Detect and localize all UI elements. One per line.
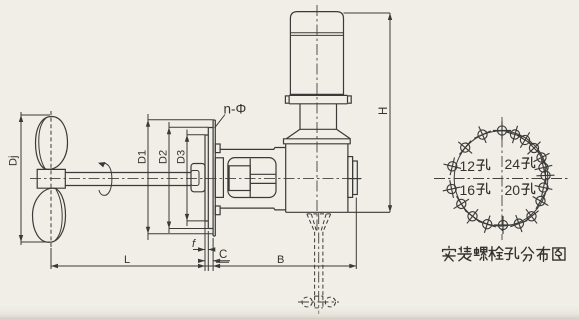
dashed lower propeller — [298, 296, 339, 308]
output cover on right face — [348, 157, 353, 198]
svg-text:D2: D2 — [158, 150, 170, 164]
label n-phi with leader — [215, 102, 247, 129]
motor body — [290, 12, 343, 95]
motor flange right bolt — [348, 96, 352, 103]
dashed lower shaft — [315, 232, 323, 296]
dimension D3 — [176, 130, 206, 227]
gearbox bottom edge + H extension — [286, 211, 390, 213]
mounting flange plates — [205, 128, 208, 229]
svg-text:B: B — [277, 254, 284, 266]
dimension D1 — [137, 114, 214, 240]
dimension Dj — [8, 112, 51, 245]
svg-text:C: C — [219, 249, 227, 261]
bell skirt — [286, 129, 350, 139]
dimension C — [198, 238, 230, 271]
propeller top blade — [36, 117, 68, 170]
bolt circle — [454, 131, 548, 226]
label 24 holes — [505, 156, 535, 172]
bolt holes — [443, 121, 555, 234]
svg-text:n-Φ: n-Φ — [224, 102, 247, 117]
flange boss — [215, 158, 223, 198]
svg-text:D3: D3 — [176, 150, 188, 164]
coupling housing — [228, 158, 276, 198]
propeller vertical centerline — [50, 111, 52, 250]
machine vertical centerline — [316, 5, 318, 232]
svg-text:24: 24 — [505, 156, 521, 172]
gearbox body — [286, 144, 348, 213]
svg-text:L: L — [124, 254, 130, 266]
dimension H — [344, 13, 393, 212]
svg-text:Dj: Dj — [8, 156, 20, 166]
lantern neck — [300, 104, 337, 130]
motor flange left bolt — [285, 96, 289, 103]
svg-text:D1: D1 — [137, 150, 149, 164]
motor flange band — [289, 95, 347, 103]
dashed output funnel — [307, 214, 331, 232]
agitator shaft — [65, 173, 191, 186]
lower shaft centerline — [318, 213, 320, 314]
propeller bottom blade — [33, 188, 66, 242]
coupling hub block — [229, 166, 250, 191]
gearbox top plate — [284, 139, 351, 144]
bolt circle crosshair — [434, 117, 569, 240]
label 12 holes — [460, 158, 490, 174]
rotation arrow — [99, 163, 112, 195]
motor cap lines — [290, 33, 343, 36]
flange bottom tab — [215, 206, 220, 215]
dimension L and B baseline — [51, 198, 356, 270]
propeller hub — [37, 169, 65, 188]
shaft horizontal centerline — [30, 178, 362, 180]
svg-text:16: 16 — [460, 182, 476, 198]
label 16 holes — [460, 182, 490, 198]
svg-text:12: 12 — [460, 158, 476, 174]
dimension D2 — [158, 122, 209, 233]
label 20 holes — [505, 182, 535, 198]
dimension f — [192, 138, 215, 271]
flange top tab — [215, 144, 220, 153]
caption: installation bolt hole distribution diagram — [443, 246, 565, 261]
svg-text:20: 20 — [505, 182, 521, 198]
svg-text:H: H — [378, 107, 390, 115]
lantern bracket — [220, 148, 286, 210]
stuffing box — [191, 164, 205, 192]
